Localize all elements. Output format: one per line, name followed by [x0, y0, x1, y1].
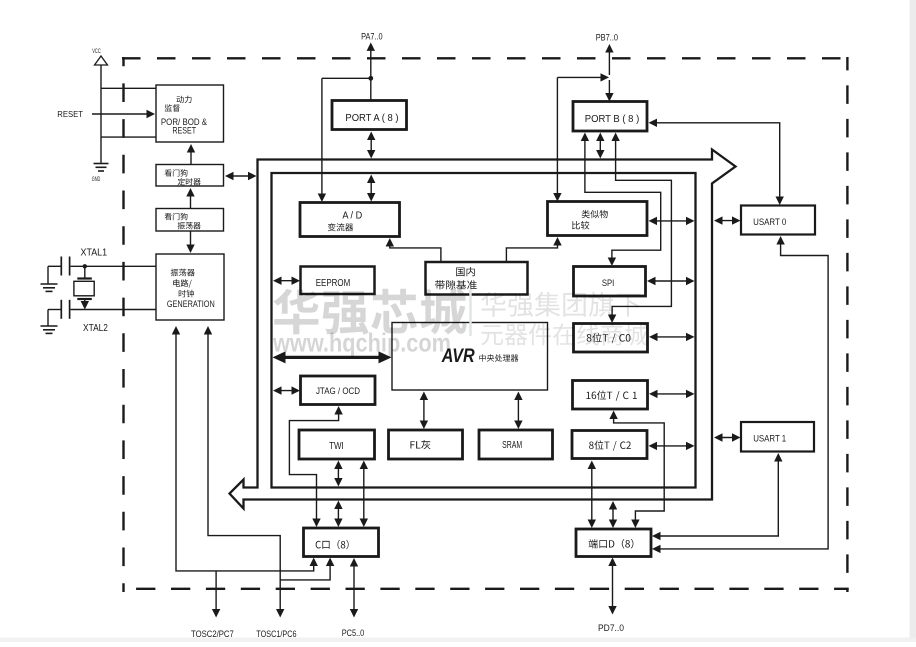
- wire USART0 to PORT D (stepped): [652, 236, 828, 553]
- wire bandgap to ADC: [386, 238, 441, 262]
- svg-text:GND: GND: [92, 177, 101, 183]
- svg-text:PC5..0: PC5..0: [342, 628, 365, 638]
- wire PC5..0 pin (double arrow): [350, 558, 358, 618]
- wire T/C2 to bus (double arrow): [649, 442, 695, 450]
- node XTAL2 label: [83, 322, 108, 334]
- ground GND (C2): [41, 326, 58, 333]
- pin label PC5..0: [342, 628, 365, 638]
- block watchdog oscillator 看门狗振荡器: [156, 209, 224, 232]
- svg-text:JTAG / OCD: JTAG / OCD: [316, 386, 360, 397]
- wire PORT B pin3 to T/C0 (stepped): [608, 133, 672, 324]
- svg-text:RESET: RESET: [57, 110, 83, 119]
- wire bandgap to comparator: [506, 237, 561, 262]
- wire gnd to POR box lower: [101, 136, 156, 138]
- wire TWI to bus (double arrow): [334, 461, 342, 487]
- wire vcc to POR box upper: [101, 87, 156, 89]
- block USART 1: [741, 422, 814, 452]
- chip boundary dashed border: [122, 57, 849, 592]
- wire T/C1 to PORT D (stepped): [609, 411, 664, 529]
- wire bus to ADC (double arrow): [367, 175, 375, 202]
- wire comparator to bus (double arrow): [649, 217, 695, 225]
- node junction dot XTAL1: [83, 264, 87, 268]
- svg-text:PB7..0: PB7..0: [596, 32, 618, 42]
- svg-text:XTAL1: XTAL1: [81, 247, 108, 259]
- watermark 华强集团旗下: [481, 292, 640, 317]
- block 16-bit T/C1: [573, 381, 648, 410]
- wire USART1 to PORT D (stepped): [652, 453, 783, 540]
- bus cpu to main bus thick arrow: [273, 351, 392, 363]
- crystal X1: [74, 266, 94, 306]
- svg-text:TOSC1/PC6: TOSC1/PC6: [256, 629, 296, 639]
- ground GND (C1): [41, 284, 58, 291]
- wire PB junction to comparator: [553, 73, 609, 201]
- wire PORT A to bus (double arrow): [367, 132, 375, 159]
- block analog comparator 类似物比较: [548, 202, 648, 236]
- block EEPROM: [301, 267, 375, 295]
- wire PORT B pin1 to SPI (stepped): [581, 133, 661, 267]
- block A/D converter: [300, 203, 400, 237]
- wire bus to USART1 (double arrow): [714, 433, 741, 441]
- block watchdog timer 看门狗定时器: [156, 165, 224, 187]
- block FLASH (FL灰): [389, 430, 463, 459]
- wire JTAG to PORT C (stepped): [289, 406, 342, 527]
- wire PD7..0 pin (double arrow): [608, 558, 616, 615]
- block 8-bit T/C0: [574, 324, 648, 353]
- wire TWI to PORT C direct: [360, 461, 368, 528]
- svg-text:PD7..0: PD7..0: [598, 623, 624, 633]
- wire T/C1 to bus (double arrow): [649, 390, 695, 398]
- pin label PD7..0: [598, 623, 624, 633]
- svg-text:SPI: SPI: [602, 278, 614, 289]
- capacitor C2: [61, 300, 69, 319]
- svg-text:RESET: RESET: [172, 126, 196, 136]
- wire SPI to bus (double arrow): [647, 277, 695, 285]
- svg-text:A / D: A / D: [342, 211, 362, 222]
- node junction arrow XTAL2: [81, 301, 89, 310]
- wire bus to PORT C (double arrow): [334, 501, 342, 528]
- watermark 元器件在线商城: [481, 323, 647, 345]
- svg-text:TWI: TWI: [329, 441, 344, 452]
- pin label TOSC1/PC6: [256, 629, 296, 639]
- svg-text:GENERATION: GENERATION: [167, 299, 215, 309]
- wire TOSC1/PC6 net: [204, 326, 334, 618]
- wire XTAL1 net: [48, 266, 156, 284]
- svg-text:PORT A ( 8 ): PORT A ( 8 ): [345, 113, 398, 124]
- wire RESET input: [57, 110, 155, 119]
- capacitor C1: [61, 257, 69, 276]
- wire watchdog timer to bus: [225, 172, 257, 180]
- wire bus to USART0 (double arrow): [714, 216, 741, 224]
- wire USART0 to PORT B (stepped): [649, 119, 784, 205]
- wire bus to EEPROM (double arrow): [273, 277, 300, 285]
- watermark www.hqchip.com: [272, 328, 451, 358]
- svg-text:www.hqchip.com: www.hqchip.com: [272, 328, 451, 358]
- pin PB7..0: [596, 32, 618, 101]
- block PORT A (8): [332, 101, 407, 130]
- block AVR CPU 中央处理器: [392, 323, 548, 391]
- page edge shading right: [910, 0, 916, 642]
- node XTAL1 label: [81, 247, 108, 259]
- block 8-bit T/C2: [572, 431, 647, 459]
- wire CPU to SRAM (double arrow): [514, 392, 522, 430]
- svg-text:USART 1: USART 1: [753, 433, 786, 443]
- block PORT C (8): [304, 528, 379, 557]
- wire XTAL2 net: [48, 310, 156, 327]
- wire TOSC2/PC7 net: [172, 326, 318, 618]
- wire bus to JTAG (double arrow): [273, 386, 300, 394]
- block oscillator circuit / clock generation: [156, 254, 224, 320]
- wire watchdog osc to clock generation: [186, 231, 194, 253]
- pin PA7..0: [361, 32, 383, 101]
- wire T/C0 to bus (double arrow): [649, 333, 695, 341]
- block internal bandgap reference 国内带隙基准: [426, 262, 528, 295]
- svg-text:PORT B ( 8 ): PORT B ( 8 ): [585, 114, 640, 125]
- ground GND (vcc rail): [92, 164, 109, 184]
- block TWI: [299, 430, 375, 459]
- page edge shading bottom: [0, 638, 916, 643]
- wire POR to watchdog timer: [187, 144, 195, 165]
- svg-text:XTAL2: XTAL2: [83, 322, 108, 334]
- block SRAM: [479, 430, 553, 459]
- node junction dot PA: [368, 76, 373, 81]
- wire T/C2 to PORT D direct: [588, 461, 596, 529]
- block POR/BOD & RESET supervision: [156, 85, 224, 142]
- wire bus to PORT D (double arrow): [609, 501, 617, 528]
- svg-text:EEPROM: EEPROM: [316, 278, 351, 289]
- svg-text:TOSC2/PC7: TOSC2/PC7: [191, 629, 234, 639]
- block PORT D (8): [576, 529, 651, 557]
- block SPI: [574, 267, 646, 297]
- bus main data bus band with arrowheads: [230, 150, 736, 509]
- block JTAG / OCD: [301, 376, 376, 405]
- block USART 0: [741, 206, 815, 235]
- wire watchdog osc to watchdog timer: [186, 188, 194, 209]
- svg-text:PA7..0: PA7..0: [361, 32, 383, 42]
- wire PORT B to bus (double arrow): [596, 133, 604, 159]
- vcc symbol: [92, 49, 107, 164]
- wire CPU to FLASH (double arrow): [420, 392, 428, 430]
- watermark 华强芯城: [273, 289, 466, 335]
- wire PA junction to ADC: [318, 78, 371, 202]
- block PORT B (8): [573, 102, 647, 132]
- svg-text:USART 0: USART 0: [753, 217, 786, 227]
- watermark divider: [469, 289, 471, 336]
- pin label TOSC2/PC7: [191, 629, 234, 639]
- svg-text:VCC: VCC: [92, 49, 101, 55]
- svg-text:SRAM: SRAM: [502, 440, 522, 451]
